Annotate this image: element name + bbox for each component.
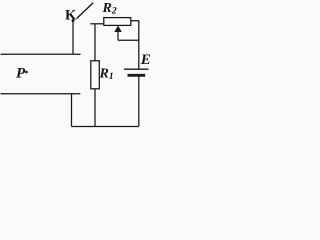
switch K contact dot — [72, 19, 75, 22]
svg-text:P: P — [16, 65, 26, 81]
rheostat wiper arrow — [114, 25, 122, 32]
wire R2 wiper stem — [117, 32, 119, 41]
resistor R2 (rheostat body) — [104, 18, 131, 26]
wire bottom plate down — [71, 94, 73, 127]
capacitor bottom plate — [1, 93, 81, 95]
wire top plate to switch — [72, 21, 74, 55]
particle dot at P — [25, 71, 28, 74]
battery E short thick plate — [128, 74, 146, 77]
svg-text:K: K — [65, 8, 77, 24]
resistor R1 — [91, 61, 100, 89]
switch K blade — [77, 3, 94, 19]
wire R1 top lead — [94, 24, 96, 61]
wire R1 bottom lead — [94, 89, 96, 127]
svg-text:E: E — [140, 52, 151, 68]
wire bottom — [72, 126, 139, 128]
battery E long plate — [124, 68, 149, 70]
wire wiper to right rail — [118, 39, 139, 41]
wire battery positive up to R2 right stub — [131, 21, 139, 69]
wire battery negative to bottom — [138, 76, 140, 127]
capacitor top plate — [1, 53, 81, 55]
wire switch to R2 — [90, 23, 104, 25]
